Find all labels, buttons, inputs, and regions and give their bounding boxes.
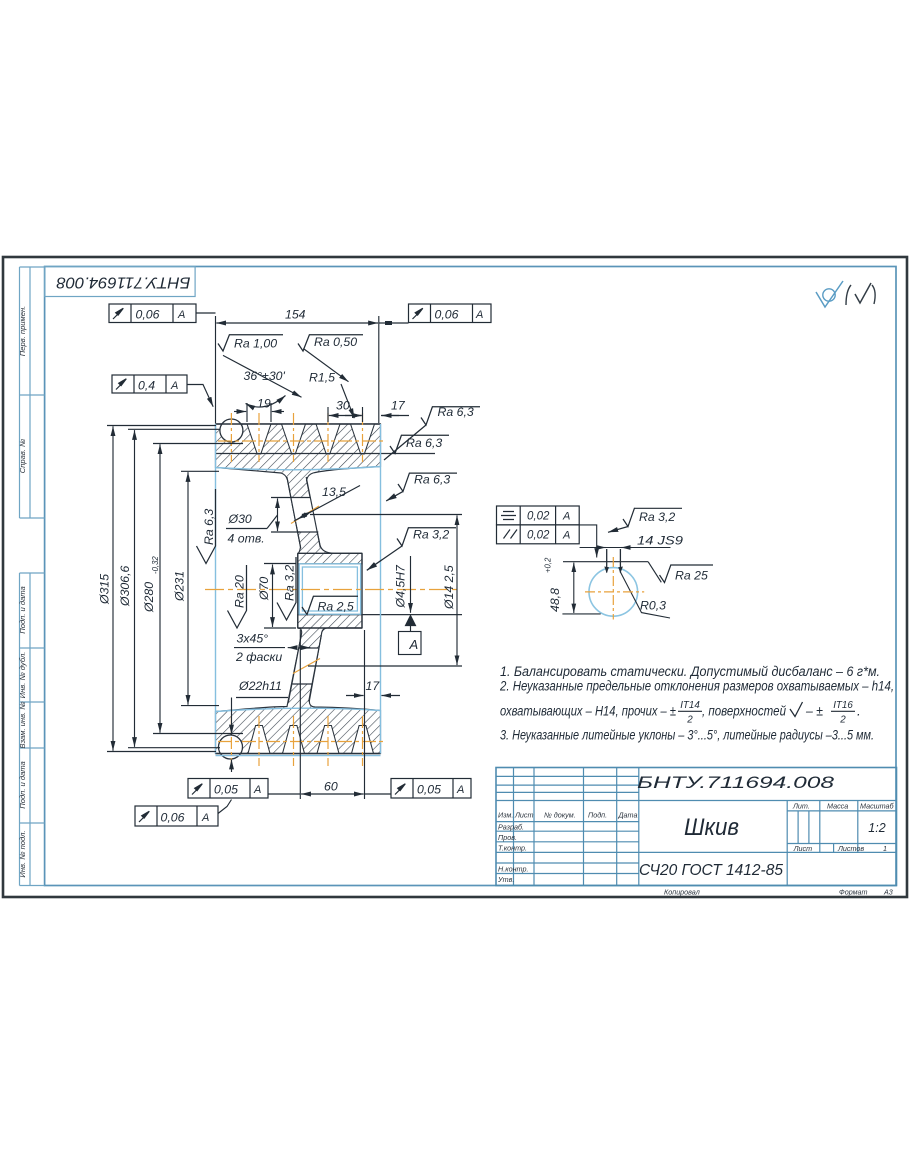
svg-text:СЧ20 ГОСТ 1412-85: СЧ20 ГОСТ 1412-85	[639, 862, 783, 879]
svg-text:А3: А3	[883, 888, 893, 897]
svg-text:Ra 0,50: Ra 0,50	[314, 335, 357, 349]
svg-text:Т.контр.: Т.контр.	[498, 844, 527, 853]
svg-text:Ra 3,2: Ra 3,2	[283, 565, 297, 601]
svg-text:Изм.: Изм.	[498, 811, 513, 820]
svg-text:Инв. № подл.: Инв. № подл.	[18, 830, 27, 877]
svg-text:А: А	[253, 784, 261, 796]
svg-text:БНТУ.711694.008: БНТУ.711694.008	[637, 774, 835, 792]
svg-text:Н.контр.: Н.контр.	[498, 865, 528, 874]
svg-text:Подп. и дата: Подп. и дата	[18, 761, 27, 809]
svg-text:Ra 6,3: Ra 6,3	[414, 473, 450, 487]
svg-text:0,02: 0,02	[527, 530, 550, 542]
svg-text:R0,3: R0,3	[640, 599, 666, 613]
svg-text:3х45°: 3х45°	[237, 632, 269, 646]
svg-text:17: 17	[391, 399, 406, 413]
svg-text:Лист: Лист	[514, 811, 534, 820]
svg-text:.: .	[857, 704, 861, 719]
svg-text:Ra 2,5: Ra 2,5	[318, 600, 354, 614]
svg-text:60: 60	[324, 780, 338, 794]
svg-text:Утв.: Утв.	[497, 875, 514, 884]
svg-text:Ra 25: Ra 25	[675, 569, 708, 583]
svg-text:Ø70: Ø70	[257, 577, 271, 601]
svg-text:А: А	[170, 380, 178, 392]
svg-text:0,06: 0,06	[136, 308, 160, 322]
svg-text:Разраб.: Разраб.	[498, 823, 524, 832]
svg-text:36°±30': 36°±30'	[244, 369, 286, 383]
svg-text:Подп.: Подп.	[588, 811, 607, 820]
svg-text:А: А	[456, 784, 464, 796]
svg-text:Формат: Формат	[839, 888, 868, 897]
svg-text:Ø280: Ø280	[142, 582, 156, 613]
svg-text:Копировал: Копировал	[664, 888, 700, 897]
svg-text:IT14: IT14	[680, 700, 700, 711]
svg-text:19: 19	[257, 397, 271, 411]
svg-text:Ra 20: Ra 20	[233, 575, 247, 608]
svg-text:17: 17	[366, 679, 381, 693]
svg-text:Инв. № дубл.: Инв. № дубл.	[18, 652, 27, 699]
svg-text:Ra 3,2: Ra 3,2	[413, 528, 449, 542]
svg-text:А: А	[475, 309, 483, 321]
svg-text:БНТУ.711694.008: БНТУ.711694.008	[56, 273, 190, 290]
svg-text:1:2: 1:2	[868, 821, 885, 835]
svg-text:А: А	[562, 530, 570, 542]
svg-text:А: А	[562, 511, 570, 523]
svg-text:0,06: 0,06	[435, 308, 459, 322]
svg-text:Лит.: Лит.	[792, 802, 810, 811]
svg-text:14 JS9: 14 JS9	[637, 534, 683, 548]
svg-text:Ra 3,2: Ra 3,2	[639, 510, 675, 524]
svg-text:Ø22h11: Ø22h11	[238, 679, 282, 693]
svg-text:А: А	[177, 309, 185, 321]
svg-text:Перв. примен.: Перв. примен.	[18, 306, 27, 356]
svg-text:13,5: 13,5	[322, 485, 346, 499]
svg-text:Лист: Лист	[793, 844, 813, 853]
svg-text:-0,32: -0,32	[151, 556, 160, 574]
svg-text:Листов: Листов	[837, 844, 864, 853]
svg-text:Дата: Дата	[618, 811, 638, 820]
svg-text:0,06: 0,06	[161, 811, 185, 825]
svg-text:IT16: IT16	[833, 700, 853, 711]
svg-text:А: А	[409, 637, 419, 652]
svg-text:, поверхностей: , поверхностей	[702, 704, 786, 719]
svg-text:А: А	[201, 812, 209, 824]
svg-text:2: 2	[686, 715, 693, 726]
svg-text:48,8: 48,8	[548, 588, 562, 612]
svg-text:Подп. и дата: Подп. и дата	[18, 586, 27, 634]
svg-text:Масса: Масса	[827, 802, 848, 811]
svg-text:Ø315: Ø315	[98, 574, 112, 605]
svg-text:2 фаски: 2 фаски	[235, 650, 282, 664]
svg-text:– ±: – ±	[805, 704, 823, 719]
svg-text:0,02: 0,02	[527, 511, 550, 523]
svg-text:№ докум.: № докум.	[544, 811, 576, 820]
svg-text:Ø14 2,5: Ø14 2,5	[442, 565, 456, 610]
svg-text:Масштаб: Масштаб	[860, 802, 895, 811]
svg-text:Взам. инв. №: Взам. инв. №	[18, 702, 27, 749]
svg-text:4 отв.: 4 отв.	[228, 532, 265, 546]
svg-text:Ra 6,3: Ra 6,3	[438, 405, 474, 419]
svg-text:Справ. №: Справ. №	[18, 439, 27, 474]
svg-text:Ra 6,3: Ra 6,3	[406, 436, 442, 450]
svg-text:30: 30	[336, 399, 350, 413]
svg-text:Ø231: Ø231	[173, 571, 187, 602]
svg-text:R1,5: R1,5	[309, 371, 335, 385]
svg-text:1: 1	[883, 844, 887, 853]
svg-text:Ra 1,00: Ra 1,00	[234, 337, 277, 351]
svg-text:+0,2: +0,2	[544, 557, 553, 573]
svg-text:Ø30: Ø30	[228, 512, 252, 526]
svg-text:охватывающих – Н14, прочих – ±: охватывающих – Н14, прочих – ±	[500, 704, 676, 719]
svg-text:0,05: 0,05	[417, 783, 441, 797]
svg-text:Ø4,5Н7: Ø4,5Н7	[394, 564, 408, 609]
svg-text:3. Неуказанные литейные уклоны: 3. Неуказанные литейные уклоны – 3°...5°…	[500, 728, 874, 743]
svg-text:1. Балансировать статически. Д: 1. Балансировать статически. Допустимый …	[500, 664, 880, 679]
svg-text:2: 2	[839, 715, 846, 726]
svg-text:0,05: 0,05	[214, 783, 238, 797]
svg-text:Ø306,6: Ø306,6	[118, 566, 132, 607]
svg-text:2. Неуказанные предельные откл: 2. Неуказанные предельные отклонения раз…	[499, 679, 894, 694]
svg-text:154: 154	[285, 308, 306, 322]
svg-text:Ra 6,3: Ra 6,3	[202, 509, 216, 545]
svg-text:0,4: 0,4	[138, 379, 155, 393]
svg-text:Шкив: Шкив	[684, 814, 739, 841]
svg-text:Пров.: Пров.	[498, 833, 517, 842]
